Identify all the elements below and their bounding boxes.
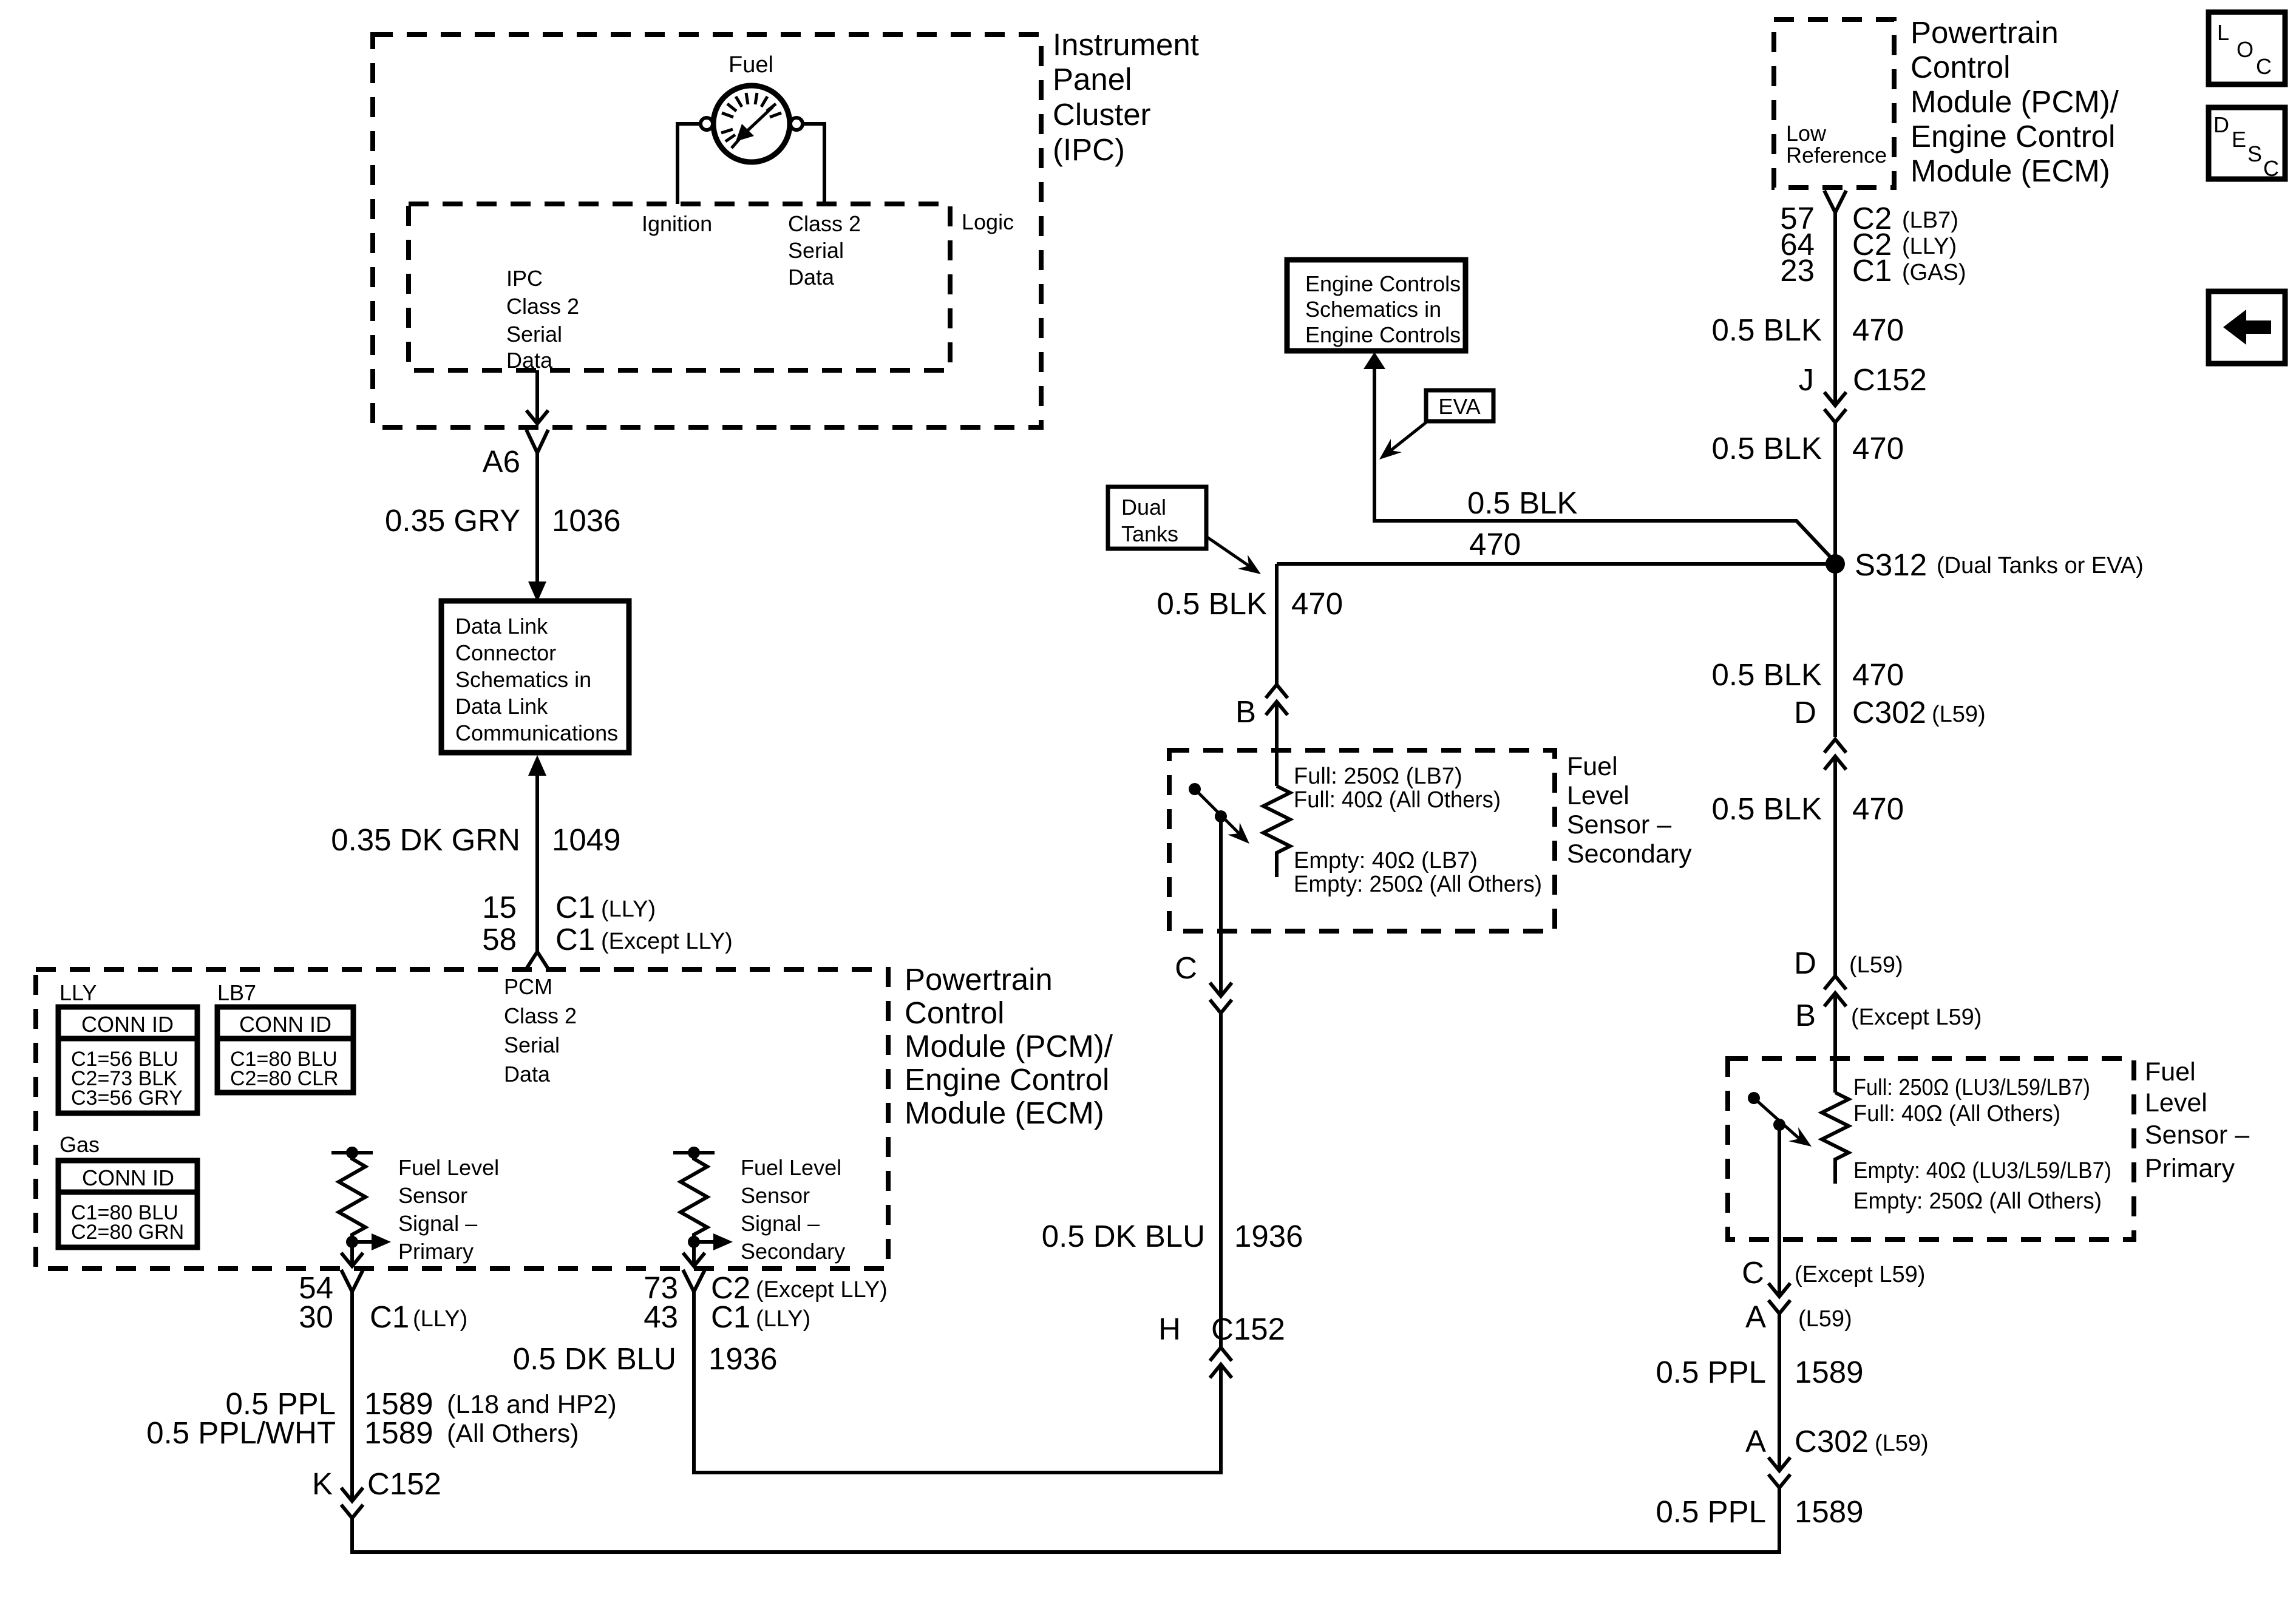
switch wiper (secondary) <box>1189 783 1249 996</box>
svg-text:H: H <box>1158 1312 1181 1346</box>
wire B drop 0.5 BLK 470 <box>1275 564 1279 686</box>
LB7 conn id table <box>217 980 256 1005</box>
connector J C152 <box>1824 392 1846 422</box>
Instrument Panel Cluster (IPC) dashed box <box>373 35 1041 427</box>
svg-text:0.35 DK GRN: 0.35 DK GRN <box>331 822 520 857</box>
svg-text:Data Link: Data Link <box>455 614 548 639</box>
svg-text:(All Others): (All Others) <box>447 1419 579 1448</box>
svg-text:Dual: Dual <box>1121 495 1166 520</box>
svg-text:Data: Data <box>504 1062 551 1086</box>
svg-text:0.5 BLK: 0.5 BLK <box>1712 313 1822 347</box>
svg-text:S312: S312 <box>1855 547 1927 582</box>
Engine Controls Schematics box <box>1287 260 1466 351</box>
svg-text:Secondary: Secondary <box>1567 839 1692 869</box>
svg-text:Full: 250Ω (LB7): Full: 250Ω (LB7) <box>1294 764 1462 789</box>
svg-text:A6: A6 <box>483 444 520 479</box>
connector D (L59) / B (Except L59) <box>1824 976 1846 1006</box>
svg-text:0.5 PPL: 0.5 PPL <box>1656 1494 1766 1529</box>
svg-text:Primary: Primary <box>398 1239 474 1264</box>
pin rows 54 / 30 C1 (LLY) <box>299 1270 409 1334</box>
svg-text:(Except L59): (Except L59) <box>1795 1262 1925 1287</box>
svg-text:Engine Controls: Engine Controls <box>1305 322 1461 347</box>
svg-text:PCM: PCM <box>504 974 552 999</box>
IPC label <box>1053 27 1199 167</box>
svg-text:C152: C152 <box>367 1466 441 1501</box>
pin A C302 labels <box>1745 1424 1869 1459</box>
Dual Tanks box <box>1108 487 1206 549</box>
svg-text:Fuel Level: Fuel Level <box>741 1155 841 1180</box>
svg-text:Communications: Communications <box>455 720 618 745</box>
pin C label (secondary) <box>1175 951 1197 985</box>
svg-text:Module (ECM): Module (ECM) <box>1911 154 2110 188</box>
svg-text:Full: 250Ω (LU3/L59/LB7): Full: 250Ω (LU3/L59/LB7) <box>1853 1075 2090 1100</box>
svg-text:(LLY): (LLY) <box>1902 234 1957 259</box>
LLY conn id table <box>59 980 97 1005</box>
svg-text:Powertrain: Powertrain <box>905 962 1053 997</box>
svg-text:LLY: LLY <box>59 980 97 1005</box>
Fuel Level Sensor Signal - Primary label <box>398 1155 499 1264</box>
wire into primary sensor <box>1833 993 1837 1093</box>
svg-text:Signal –: Signal – <box>398 1211 477 1236</box>
Fuel Level Sensor Primary label <box>2145 1057 2249 1183</box>
wire PCM pin43 down, right, up to H C152 <box>694 1292 1221 1473</box>
svg-text:C302: C302 <box>1852 695 1926 730</box>
pin D (L59) labels <box>1794 946 1816 980</box>
pin rows 57 C2 (LB7) / 64 C2 (LLY) / 23 C1 (GAS) <box>1780 201 1892 288</box>
connector A6 at IPC border <box>526 430 548 453</box>
svg-text:C2=80 CLR: C2=80 CLR <box>230 1067 339 1090</box>
svg-text:0.5 BLK: 0.5 BLK <box>1157 586 1267 621</box>
resistor (fuel level sensor primary) <box>1822 1093 1849 1184</box>
svg-text:Module (ECM): Module (ECM) <box>905 1096 1104 1130</box>
svg-text:470: 470 <box>1291 586 1343 621</box>
Data Link Connector box <box>441 601 629 753</box>
wire D C302 to D/B connector <box>1833 756 1837 976</box>
connector D C302 (L59) <box>1824 739 1846 770</box>
main ground wire upper segment <box>1833 212 1837 403</box>
svg-text:K: K <box>312 1466 333 1501</box>
svg-text:Schematics in: Schematics in <box>455 667 591 692</box>
svg-text:Panel: Panel <box>1053 62 1132 97</box>
svg-text:Engine Controls: Engine Controls <box>1305 271 1461 296</box>
wire B into secondary sensor <box>1275 702 1279 786</box>
svg-text:C: C <box>1175 951 1197 985</box>
svg-text:58: 58 <box>482 922 517 957</box>
svg-text:Reference: Reference <box>1786 143 1887 168</box>
svg-text:(L18 and HP2): (L18 and HP2) <box>447 1390 617 1419</box>
svg-text:S: S <box>2247 141 2262 166</box>
svg-text:Signal –: Signal – <box>741 1211 820 1236</box>
svg-text:(L59): (L59) <box>1849 952 1903 978</box>
svg-text:Empty: 250Ω (All Others): Empty: 250Ω (All Others) <box>1294 872 1542 897</box>
wire dual tanks branch to S312 <box>1277 562 1835 566</box>
svg-text:Sensor –: Sensor – <box>2145 1120 2249 1150</box>
wire label 0.5 BLK 470 (lowest) <box>1712 792 1904 826</box>
resistor values (secondary) <box>1294 764 1542 897</box>
svg-text:Primary: Primary <box>2145 1154 2235 1183</box>
Dual Tanks callout arrow <box>1206 537 1261 574</box>
connector Y below Low Reference <box>1824 191 1846 212</box>
svg-text:Empty: 40Ω (LU3/L59/LB7): Empty: 40Ω (LU3/L59/LB7) <box>1853 1158 2111 1184</box>
svg-text:0.5 DK BLU: 0.5 DK BLU <box>1042 1219 1205 1253</box>
connector A C302 (L59) <box>1768 1457 1790 1488</box>
svg-text:Serial: Serial <box>788 238 844 263</box>
svg-text:Data Link: Data Link <box>455 694 548 719</box>
svg-text:1936: 1936 <box>1234 1219 1303 1253</box>
pin B label <box>1235 694 1256 729</box>
svg-text:CONN ID: CONN ID <box>82 1165 174 1190</box>
pin B (Except L59) labels <box>1795 998 1816 1032</box>
wire bottom 0.5 PPL 1589 run <box>352 1485 1779 1552</box>
wire gauge left lead to Ignition <box>678 124 701 204</box>
svg-text:C2=80 GRN: C2=80 GRN <box>71 1221 184 1244</box>
svg-text:Module (PCM)/: Module (PCM)/ <box>1911 84 2119 119</box>
wire gauge right lead to Class 2 Serial Data <box>803 124 824 204</box>
svg-text:D: D <box>1794 695 1816 730</box>
svg-text:Fuel Level: Fuel Level <box>398 1155 499 1180</box>
connector H C152 <box>1210 1347 1232 1378</box>
Gas conn id table <box>59 1132 100 1157</box>
svg-text:Fuel: Fuel <box>729 52 773 78</box>
svg-text:C1: C1 <box>555 922 595 957</box>
wire label 0.5 DK BLU 1936 (vertical run) <box>1042 1219 1303 1253</box>
svg-text:C: C <box>2256 54 2272 79</box>
svg-text:0.5 PPL: 0.5 PPL <box>1656 1355 1766 1389</box>
svg-text:L: L <box>2217 20 2229 45</box>
svg-text:Gas: Gas <box>59 1132 100 1157</box>
Data Link Connector box text <box>455 614 618 745</box>
pin J C152 labels <box>1799 362 1927 397</box>
back-arrow legend box <box>2209 291 2285 364</box>
svg-text:Data: Data <box>788 265 835 290</box>
wire PCM pin54 down to K C152 <box>350 1292 354 1499</box>
svg-text:B: B <box>1235 694 1256 729</box>
svg-text:C: C <box>1742 1255 1764 1290</box>
wire H up to C (secondary wiper), 0.5 DK BLU 1936 <box>1219 1011 1223 1347</box>
svg-text:470: 470 <box>1852 657 1904 692</box>
svg-text:1589: 1589 <box>1795 1494 1863 1529</box>
svg-text:Powertrain: Powertrain <box>1911 15 2059 50</box>
EVA box <box>1426 390 1493 421</box>
svg-text:Module (PCM)/: Module (PCM)/ <box>905 1029 1113 1063</box>
wire label 0.5 PPL 1589 (lower) <box>1656 1494 1864 1529</box>
gauge terminal right <box>790 118 803 130</box>
S312 label <box>1855 547 1927 582</box>
fuel gauge label <box>729 52 773 78</box>
wire S312 down to D C302 <box>1833 564 1837 737</box>
svg-text:(LLY): (LLY) <box>413 1306 467 1332</box>
svg-text:E: E <box>2232 127 2246 152</box>
svg-text:(Except LLY): (Except LLY) <box>756 1277 888 1303</box>
Fuel Level Sensor Primary dashed box <box>1728 1059 2134 1239</box>
svg-text:Class 2: Class 2 <box>788 211 861 236</box>
svg-text:Ignition: Ignition <box>642 211 712 236</box>
svg-text:(L59): (L59) <box>1875 1431 1929 1456</box>
Fuel Level Sensor Secondary label <box>1567 752 1692 869</box>
connector B (secondary) <box>1266 685 1288 715</box>
Logic dashed box <box>409 204 950 370</box>
wire labels 0.5 PPL 1589 rows <box>226 1386 433 1421</box>
svg-text:J: J <box>1799 362 1815 397</box>
wire 0.35 DK GRN 1049 (PCM to DLC, arrow up into box) <box>528 755 546 952</box>
svg-text:Full: 40Ω (All Others): Full: 40Ω (All Others) <box>1853 1101 2060 1127</box>
svg-text:Low: Low <box>1786 121 1827 146</box>
splice S312 <box>1826 554 1845 574</box>
switch wiper (primary) <box>1748 1092 1812 1297</box>
pin A label (primary) <box>1745 1300 1766 1334</box>
svg-text:0.5 PPL/WHT: 0.5 PPL/WHT <box>146 1415 336 1450</box>
svg-text:Fuel: Fuel <box>2145 1057 2196 1086</box>
svg-text:C152: C152 <box>1853 362 1927 397</box>
svg-text:(L59): (L59) <box>1798 1306 1852 1332</box>
IPC Class 2 Serial Data label <box>506 266 579 373</box>
svg-text:O: O <box>2237 37 2254 62</box>
svg-text:Empty: 40Ω (LB7): Empty: 40Ω (LB7) <box>1294 848 1478 873</box>
wire EVA branch 0.5 BLK 470 <box>1374 368 1835 562</box>
pin K C152 labels <box>312 1466 441 1501</box>
svg-text:Engine Control: Engine Control <box>1911 119 2115 154</box>
svg-text:1049: 1049 <box>552 822 620 857</box>
svg-text:EVA: EVA <box>1438 394 1480 419</box>
pin A6 label <box>483 444 520 479</box>
svg-text:15: 15 <box>482 890 517 924</box>
svg-text:23: 23 <box>1780 253 1815 288</box>
svg-text:Secondary: Secondary <box>741 1239 845 1264</box>
wire label 0.35 GRY 1036 <box>385 503 621 538</box>
Low Reference dashed box <box>1774 19 1894 188</box>
svg-text:470: 470 <box>1852 792 1904 826</box>
wire label 0.5 BLK 470 (above J) <box>1712 313 1904 347</box>
svg-text:C: C <box>2263 156 2279 181</box>
Ignition pin label <box>642 211 712 236</box>
EVA callout arrow <box>1379 422 1426 459</box>
wire J to S312 <box>1833 422 1837 564</box>
Fuel Level Sensor Secondary dashed box <box>1169 750 1555 931</box>
svg-text:0.5 BLK: 0.5 BLK <box>1712 792 1822 826</box>
svg-text:Instrument: Instrument <box>1053 27 1199 62</box>
svg-text:(Except L59): (Except L59) <box>1851 1005 1982 1030</box>
svg-text:IPC: IPC <box>506 266 543 291</box>
wire label 0.5 BLK 470 (below S312) <box>1712 657 1904 692</box>
wire label 0.5 BLK 470 (below J) <box>1712 431 1904 466</box>
svg-text:B: B <box>1795 998 1816 1032</box>
svg-text:(GAS): (GAS) <box>1902 260 1966 285</box>
svg-text:Serial: Serial <box>506 322 562 347</box>
svg-text:470: 470 <box>1852 431 1904 466</box>
svg-text:1589: 1589 <box>1795 1355 1863 1389</box>
svg-text:Sensor –: Sensor – <box>1567 810 1671 839</box>
svg-text:D: D <box>1794 946 1816 980</box>
LOC legend box <box>2209 12 2285 84</box>
wire label 0.5 PPL 1589 (upper) <box>1656 1355 1864 1389</box>
connector K C152 <box>341 1488 363 1518</box>
svg-text:0.5 DK BLU: 0.5 DK BLU <box>513 1341 676 1376</box>
svg-text:C1: C1 <box>555 890 595 924</box>
pin rows 73 C2 (Except LLY) / 43 C1 (LLY) <box>644 1270 750 1334</box>
resistor (fuel level sensor secondary) <box>1263 786 1290 877</box>
PCM Class 2 Serial Data label <box>504 974 577 1086</box>
Powertrain Control Module (PCM) dashed box <box>36 969 888 1269</box>
wire C/A down to A C302 <box>1778 1314 1781 1471</box>
svg-text:Cluster: Cluster <box>1053 97 1151 132</box>
pin rows 15 C1 (LLY) / 58 C1 (Except LLY) <box>482 890 595 957</box>
Class 2 Serial Data pin label <box>788 211 861 290</box>
svg-text:0.5 BLK: 0.5 BLK <box>1712 657 1822 692</box>
svg-text:0.5 BLK: 0.5 BLK <box>1467 486 1577 520</box>
connector Y below PCM border (pin 73/43) <box>683 1270 705 1292</box>
svg-text:470: 470 <box>1852 313 1904 347</box>
svg-text:C302: C302 <box>1795 1424 1869 1459</box>
svg-text:C1: C1 <box>711 1300 750 1334</box>
svg-text:Class 2: Class 2 <box>504 1003 577 1028</box>
svg-text:C1: C1 <box>1852 253 1892 288</box>
DESC legend box <box>2209 107 2285 179</box>
svg-text:Logic: Logic <box>962 209 1014 234</box>
svg-text:Sensor: Sensor <box>741 1183 810 1208</box>
svg-text:C1: C1 <box>370 1300 409 1334</box>
resistor R-primary-signal (inside PCM) <box>331 1147 391 1266</box>
svg-text:Full: 40Ω (All Others): Full: 40Ω (All Others) <box>1294 787 1501 813</box>
svg-text:30: 30 <box>299 1300 333 1334</box>
svg-text:Schematics in: Schematics in <box>1305 297 1441 322</box>
svg-text:Fuel: Fuel <box>1567 752 1618 781</box>
svg-text:CONN ID: CONN ID <box>81 1012 174 1037</box>
svg-text:470: 470 <box>1469 527 1521 561</box>
svg-text:0.5 BLK: 0.5 BLK <box>1712 431 1822 466</box>
svg-text:(Except LLY): (Except LLY) <box>601 929 733 954</box>
svg-text:(IPC): (IPC) <box>1053 132 1125 167</box>
svg-text:(LB7): (LB7) <box>1902 208 1958 233</box>
back arrow icon <box>2223 310 2271 345</box>
PCM/ECM label (upper right) <box>1911 15 2119 188</box>
arrow into Engine Controls box <box>1364 352 1385 369</box>
svg-text:Engine Control: Engine Control <box>905 1062 1109 1097</box>
svg-text:0.35 GRY: 0.35 GRY <box>385 503 520 538</box>
svg-text:C3=56 GRY: C3=56 GRY <box>71 1086 183 1110</box>
pin H C152 labels <box>1158 1312 1285 1346</box>
svg-text:LB7: LB7 <box>217 980 256 1005</box>
svg-text:CONN ID: CONN ID <box>239 1012 331 1037</box>
svg-text:43: 43 <box>644 1300 678 1334</box>
connector Y below PCM border (pin 54/30) <box>341 1270 363 1292</box>
svg-text:A: A <box>1745 1424 1766 1459</box>
svg-text:1036: 1036 <box>552 503 620 538</box>
svg-text:A: A <box>1745 1300 1766 1334</box>
svg-text:Level: Level <box>2145 1088 2207 1117</box>
svg-text:Control: Control <box>905 995 1004 1030</box>
svg-text:(LLY): (LLY) <box>601 897 656 922</box>
svg-text:D: D <box>2213 112 2229 137</box>
svg-text:1936: 1936 <box>708 1341 777 1376</box>
svg-text:Tanks: Tanks <box>1121 521 1178 546</box>
svg-text:Connector: Connector <box>455 640 556 665</box>
connector at PCM top border (inverted Y) <box>526 952 548 969</box>
gauge terminal left <box>701 118 713 130</box>
svg-text:Class 2: Class 2 <box>506 294 579 319</box>
resistor values (primary) <box>1853 1075 2111 1214</box>
svg-text:1589: 1589 <box>364 1415 433 1450</box>
pin C label (primary) <box>1742 1255 1764 1290</box>
wire label 0.5 DK BLU 1936 (left) <box>513 1341 778 1376</box>
svg-text:(LLY): (LLY) <box>756 1306 810 1332</box>
svg-text:Control: Control <box>1911 50 2010 84</box>
pin D C302 labels <box>1794 695 1926 730</box>
wire 0.35 GRY 1036 (A6 to DLC) <box>528 453 546 602</box>
wire label 0.5 BLK / 470 (EVA run) <box>1467 486 1577 561</box>
fuel gauge G1 <box>713 86 790 162</box>
svg-text:Empty: 250Ω (All Others): Empty: 250Ω (All Others) <box>1853 1188 2102 1214</box>
wire label 0.5 BLK 470 (B drop) <box>1157 586 1343 621</box>
resistor R-secondary-signal (inside PCM) <box>673 1147 733 1266</box>
Logic label <box>962 209 1014 234</box>
wire label 0.35 DK GRN 1049 <box>331 822 620 857</box>
wire Logic box to IPC exit <box>526 370 548 424</box>
svg-text:(Dual Tanks or EVA): (Dual Tanks or EVA) <box>1937 553 2144 578</box>
connector C (secondary) <box>1210 983 1232 1013</box>
svg-text:Level: Level <box>1567 781 1629 810</box>
Fuel Level Sensor Signal - Secondary label <box>741 1155 845 1264</box>
PCM/ECM label (lower) <box>905 962 1113 1130</box>
svg-text:Sensor: Sensor <box>398 1183 467 1208</box>
svg-text:Serial: Serial <box>504 1032 560 1057</box>
svg-text:Data: Data <box>506 348 553 373</box>
connector C (Except L59) / A (L59) <box>1768 1283 1790 1314</box>
svg-text:(L59): (L59) <box>1932 702 1986 727</box>
